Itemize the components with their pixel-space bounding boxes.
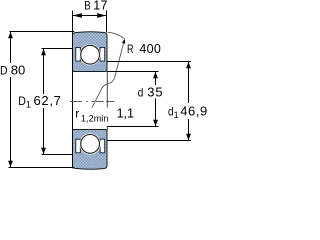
upper right recess slot (100, 48, 105, 62)
B extension line left (bearing left face) (72, 11, 74, 169)
r chamfer leader line (92, 78, 115, 108)
bearing lower section (73, 130, 108, 170)
D bottom surface line (9, 167, 73, 169)
d1 lower surface line (107, 140, 191, 142)
d dimension line with arrows (153, 72, 158, 127)
d1 dimension line with arrows (186, 62, 191, 141)
lower right recess slot (100, 139, 105, 153)
D1 dimension line with arrows (41, 49, 46, 155)
D top surface line (10, 31, 75, 33)
inner ring face extension stub to d line (106, 127, 108, 131)
D1 bottom surface line (42, 154, 73, 156)
R arc of spherical outside surface (108, 32, 125, 39)
upper left recess slot (76, 48, 81, 62)
svg-text:R400: R400 (127, 42, 161, 56)
R arrowhead (122, 39, 125, 44)
d lower surface line (107, 126, 159, 128)
svg-text:B17: B17 (84, 0, 107, 13)
d1 top surface line (107, 61, 191, 63)
lower left recess slot (76, 139, 81, 153)
svg-text:d35: d35 (138, 84, 164, 99)
d top surface line (107, 71, 159, 73)
ball lower (80, 133, 101, 154)
label D1 62,7 (17, 93, 64, 110)
B extension line right (106, 11, 108, 33)
D1 top surface line (42, 48, 73, 50)
svg-text:D162,7: D162,7 (18, 93, 61, 110)
label d 35 (137, 84, 165, 99)
ball upper (80, 44, 101, 65)
R radial leader line (115, 40, 125, 77)
bearing outer+inner ring upper section (73, 32, 108, 72)
D dimension line with arrows (8, 32, 13, 168)
B dimension line (73, 13, 107, 18)
inner ring face extension line upper segment (106, 72, 108, 108)
label d1 46,9 (167, 104, 208, 121)
svg-text:D80: D80 (0, 63, 25, 78)
centerline axis dash-dot (70, 101, 115, 103)
